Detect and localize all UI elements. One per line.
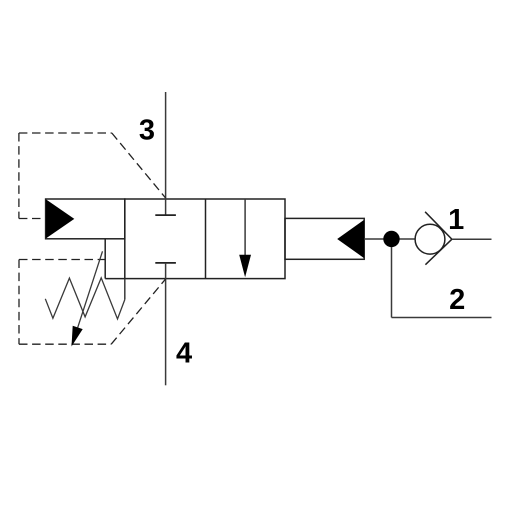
junction node (filled dot) (383, 231, 399, 247)
wire: port 2 horizontal (392, 317, 492, 319)
blocked port symbol T (bottom, left cell) (155, 262, 176, 264)
spring (zigzag) (45, 278, 125, 319)
spring adjustment arrowhead (72, 326, 83, 347)
right actuator box (pilot housing right) (285, 218, 364, 259)
svg-text:4: 4 (176, 338, 192, 370)
spring cavity notch vertical (104, 239, 106, 279)
spring attachment stem (valve left edge extension below body) (124, 279, 126, 300)
valve cell divider (205, 199, 207, 279)
svg-text:3: 3 (139, 115, 155, 147)
svg-text:2: 2 (449, 284, 465, 316)
pilot box (left actuator housing) (46, 199, 125, 239)
flow path arrow line (right cell) (244, 199, 246, 257)
check valve seat (V) (425, 212, 452, 265)
wire: port 3 line into valve (stub to blocked seat) (165, 92, 167, 215)
wire: right box to check valve (364, 238, 415, 240)
spring box dashed: diagonal to port 4 junction (111, 279, 165, 344)
blocked port symbol T (top, left cell) (155, 214, 176, 216)
pilot line dashed: entry into pilot triangle (19, 218, 46, 220)
pilot line dashed: diagonal to port 3 junction (112, 133, 166, 198)
spring box dashed: bottom horizontal (19, 343, 111, 345)
spring adjustment arrow shaft (74, 251, 103, 340)
pilot triangle (hydraulic pilot, pointing right) (46, 199, 75, 238)
wire: node down to port 2 (391, 247, 393, 318)
spring box dashed: top horizontal (19, 259, 105, 261)
pilot line dashed: top horizontal (19, 132, 112, 134)
svg-text:1: 1 (448, 204, 464, 236)
right pilot triangle (pointing left) (337, 220, 364, 258)
pilot line dashed: vertical left (18, 133, 20, 219)
spring box dashed: left vertical (18, 260, 20, 345)
valve body V1 (2-position, two cells) (125, 199, 285, 279)
spring cavity notch bottom extension (105, 278, 125, 280)
wire: port 4 line out of valve (from blocked seat) (165, 263, 167, 385)
wire: port 1 horizontal (452, 238, 492, 240)
flow path arrowhead (right cell, pointing down) (239, 255, 251, 278)
check valve ball (circle) (415, 224, 445, 254)
